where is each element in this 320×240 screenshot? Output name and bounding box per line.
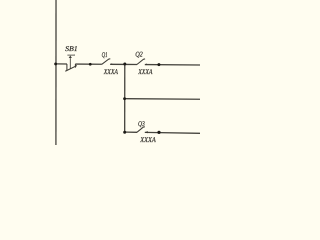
SB1 button cap bar <box>67 54 74 56</box>
junction dot: bottom rail after Q3 <box>157 131 160 134</box>
Q2 blade with tip hook <box>137 59 145 65</box>
wire: top rail segment from bus to SB1 <box>56 63 67 65</box>
svg-text:XXXA: XXXA <box>137 68 153 76</box>
junction dot: bus / top rail <box>54 62 57 65</box>
SB1 right terminal stub <box>74 64 76 68</box>
SB1 button cap bar end nub <box>74 55 75 56</box>
svg-text:Q3: Q3 <box>138 120 145 128</box>
breaker switch Q2 <box>137 59 145 65</box>
wire: top rail segment SB1 to Q1 <box>75 63 102 65</box>
Q3 fixed contact wedge <box>145 131 148 133</box>
SB1 actuator stem <box>69 58 71 69</box>
wire: top rail segment Q1 to Q2 <box>110 63 137 65</box>
wire: bottom rail segment Q3 to right edge <box>145 131 201 134</box>
junction dot: top rail after Q2 <box>157 63 160 66</box>
wire: middle rail from branch to right edge <box>125 98 201 101</box>
junction dot: top rail / branch <box>123 63 126 66</box>
SB1 actuator arrowhead <box>69 55 72 58</box>
junction dot: top rail after SB1 <box>89 63 92 66</box>
SB1 contact blade <box>65 66 77 72</box>
Q1 fixed contact wedge <box>110 63 112 65</box>
svg-text:XXXA: XXXA <box>139 136 156 144</box>
SB1 left terminal stub <box>66 64 68 70</box>
wire: top rail segment Q2 to right edge <box>145 64 201 66</box>
pushbutton SB1 (normally-closed) <box>65 55 77 71</box>
breaker switch Q1 <box>102 59 111 65</box>
svg-text:SB1: SB1 <box>65 45 78 53</box>
left vertical bus wire <box>55 0 57 146</box>
Q1 blade with tip hook <box>102 59 111 65</box>
Q2 fixed contact wedge <box>145 63 147 65</box>
svg-text:Q2: Q2 <box>135 51 143 59</box>
svg-text:XXXA: XXXA <box>103 68 119 76</box>
Q3 blade with tip hook <box>137 127 145 133</box>
breaker switch Q3 <box>137 127 145 133</box>
wire: vertical branch from top rail down to third rail <box>124 64 126 132</box>
svg-text:Q1: Q1 <box>102 51 108 59</box>
junction dot: branch / middle rail <box>123 97 126 100</box>
wire: bottom rail segment branch to Q3 <box>125 131 137 133</box>
junction dot: branch / bottom rail <box>123 131 126 134</box>
